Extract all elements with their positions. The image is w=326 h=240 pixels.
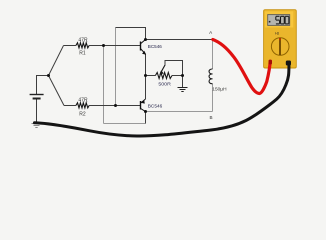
svg-text:47R: 47R	[78, 37, 88, 43]
svg-text:R1: R1	[79, 50, 86, 56]
svg-text:BC546: BC546	[148, 44, 163, 49]
svg-text:150µH: 150µH	[212, 86, 227, 92]
svg-text:Hz: Hz	[275, 32, 279, 36]
svg-text:BC546: BC546	[148, 103, 163, 108]
svg-text:47R: 47R	[78, 97, 88, 103]
svg-text:R2: R2	[79, 111, 86, 117]
svg-text:B: B	[209, 115, 212, 120]
svg-text:500R: 500R	[158, 82, 171, 87]
